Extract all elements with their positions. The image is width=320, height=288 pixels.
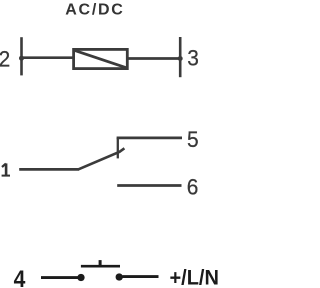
terminal 1 label (base serif)	[2, 175, 10, 177]
NO contact stub	[117, 138, 119, 159]
wire coil right	[128, 57, 181, 60]
terminal 1 label (stem)	[5, 163, 8, 175]
svg-text:5: 5	[187, 128, 199, 153]
wire button left	[41, 276, 78, 279]
svg-text:4: 4	[14, 266, 26, 288]
svg-text:AC/DC: AC/DC	[65, 2, 123, 19]
button contact left dot	[77, 274, 84, 281]
junction dot terminal 2	[19, 56, 24, 61]
terminal 2 tick	[20, 37, 23, 75]
push-button bridge	[81, 265, 120, 268]
coil (rectangle)	[74, 49, 128, 68]
wire contact 5	[117, 137, 182, 140]
push-button actuator tick	[99, 260, 102, 266]
svg-text:+/L/N: +/L/N	[170, 266, 219, 288]
terminal 3 tick	[179, 37, 182, 77]
wire common contact	[19, 168, 79, 171]
svg-text:6: 6	[187, 175, 199, 200]
wire button right	[123, 275, 159, 278]
wire contact 6	[117, 184, 181, 187]
svg-text:2: 2	[0, 47, 10, 72]
button contact right dot	[116, 273, 123, 280]
coil diagonal	[75, 50, 127, 67]
junction dot terminal 3	[178, 56, 183, 61]
moving contact arm	[78, 148, 124, 169]
svg-text:3: 3	[187, 46, 199, 71]
wire coil left	[22, 56, 74, 59]
terminal 1 label (flag)	[2, 164, 6, 167]
